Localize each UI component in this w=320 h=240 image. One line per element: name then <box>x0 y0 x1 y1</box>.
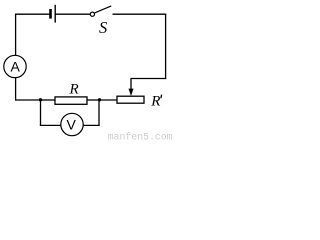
rheostat wiper arrowhead <box>129 89 134 96</box>
wire voltmeter branch left horizontal <box>40 124 61 126</box>
wire battery to switch <box>55 13 90 15</box>
svg-text:S: S <box>99 18 107 37</box>
voltmeter V <box>61 113 83 135</box>
svg-text:manfen5.com: manfen5.com <box>108 132 173 142</box>
svg-text:R: R <box>69 82 79 98</box>
wire left vertical below ammeter <box>15 78 17 101</box>
resistor R body <box>55 97 87 104</box>
wire voltmeter branch right horizontal <box>83 124 99 126</box>
svg-text:V: V <box>67 117 77 133</box>
wire voltmeter branch right vertical <box>98 100 100 126</box>
wire right vertical <box>165 14 167 80</box>
switch S pivot contact circle <box>90 12 94 16</box>
ammeter A <box>4 55 26 77</box>
wire R to right junction <box>87 99 100 101</box>
wire to rheostat wiper <box>131 78 166 80</box>
wire bottom-left horizontal <box>15 99 41 101</box>
node right junction <box>98 98 101 101</box>
wire left vertical above ammeter <box>15 14 17 56</box>
rheostat R' body <box>117 96 144 103</box>
wire voltmeter branch left vertical <box>40 100 42 126</box>
svg-text:A: A <box>11 59 21 75</box>
svg-text:R: R <box>150 94 160 110</box>
wire switch to top-right corner <box>113 13 167 15</box>
battery cell positive plate (long thin) <box>54 5 56 23</box>
wire top-left horizontal (battery to left corner) <box>15 13 50 15</box>
battery cell negative plate (short thick) <box>49 9 52 19</box>
wire junction to rheostat <box>100 99 118 101</box>
switch S blade (open) <box>94 6 111 13</box>
wire left junction to R <box>41 99 56 101</box>
node left junction <box>39 98 42 101</box>
rheostat wiper arrow stem <box>130 78 132 91</box>
